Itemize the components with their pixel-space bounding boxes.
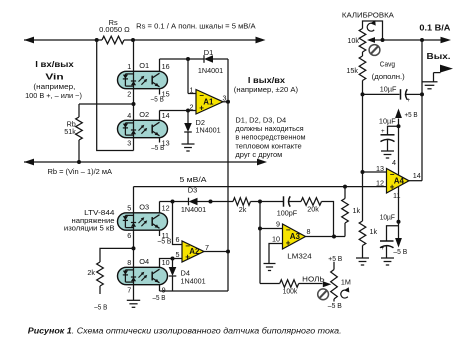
svg-text:A4: A4	[394, 176, 405, 185]
wire O4 pin10 to A2 + node	[160, 259, 173, 268]
ground below -5V cap	[381, 257, 394, 259]
ground at output	[422, 81, 438, 83]
node 1k junction on A4 input	[343, 185, 347, 189]
+5V arrow	[395, 109, 402, 119]
svg-text:Cavg: Cavg	[380, 60, 395, 69]
wire A2 output	[204, 251, 228, 253]
diode D4 1N4001	[172, 259, 174, 268]
svg-text:A3: A3	[290, 232, 301, 241]
svg-text:+5 В: +5 В	[405, 110, 418, 119]
svg-text:–5 В: –5 В	[393, 247, 407, 256]
wire to 100pF	[260, 201, 284, 203]
svg-text:2k: 2k	[239, 205, 247, 214]
op-amp A2	[182, 241, 204, 262]
svg-text:O1: O1	[139, 61, 149, 70]
wire bottom rail y=161.5	[24, 161, 258, 163]
wire bottom return y=291	[160, 290, 229, 292]
ground at A3 + input	[264, 263, 276, 265]
svg-text:100k: 100k	[283, 287, 298, 296]
svg-text:Рисунок 1. Схема оптически изо: Рисунок 1. Схема оптически изолированног…	[28, 327, 342, 336]
wire O2 pin3 stub	[133, 138, 135, 151]
svg-text:7: 7	[205, 243, 209, 252]
svg-text:A1: A1	[203, 98, 214, 107]
resistor Rs	[102, 36, 124, 44]
svg-text:1N4001: 1N4001	[196, 126, 221, 135]
svg-text:5: 5	[176, 250, 180, 259]
svg-text:D1: D1	[204, 48, 213, 57]
ground below +5V cap	[381, 150, 394, 152]
svg-text:6: 6	[176, 235, 180, 244]
svg-text:12: 12	[376, 179, 384, 188]
svg-text:(например,: (например,	[33, 82, 75, 91]
wire LED chain O1-O2	[133, 40, 135, 71]
svg-text:изоляции 5 кВ: изоляции 5 кВ	[64, 223, 115, 232]
arrow right end bottom rail	[257, 159, 267, 166]
wire A3 noninverting to ground	[269, 244, 283, 264]
svg-text:1k: 1k	[370, 227, 378, 236]
node junctions on feedback rail	[171, 200, 175, 204]
arrow right end of top rail	[256, 37, 266, 44]
svg-text:(например, ±20 А): (например, ±20 А)	[234, 85, 298, 94]
potentiometer 10k	[359, 29, 366, 53]
screw adjust symbol (calibration)	[369, 45, 380, 56]
svg-text:Rs = 0.1 / А полн. шкалы = 5 м: Rs = 0.1 / А полн. шкалы = 5 мВ/А	[136, 22, 256, 31]
capacitor 10uF (-5V)	[387, 226, 399, 241]
svg-text:20k: 20k	[307, 204, 319, 213]
ground below D2	[182, 143, 195, 145]
wire A4 noninverting long rail y=186.6	[134, 186, 387, 188]
svg-text:11: 11	[393, 191, 400, 200]
ground below 1k	[356, 257, 369, 259]
svg-text:4: 4	[392, 158, 396, 167]
svg-text:должны находиться: должны находиться	[235, 124, 303, 133]
svg-text:3: 3	[127, 138, 131, 147]
wire output rail x=422	[421, 40, 423, 181]
svg-text:(дополн.): (дополн.)	[372, 72, 405, 81]
svg-text:2k: 2k	[87, 268, 95, 277]
wire A1 output	[223, 101, 228, 103]
-5V arrow	[398, 222, 400, 238]
svg-text:8: 8	[307, 227, 311, 236]
diode D3 1N4001	[188, 198, 190, 206]
wire A3 inverting rail x=260	[259, 202, 261, 229]
svg-text:2: 2	[190, 102, 194, 111]
svg-text:6: 6	[127, 231, 131, 240]
svg-text:9: 9	[276, 219, 280, 228]
node wiper junction	[381, 38, 385, 42]
wire Rb top	[79, 103, 134, 105]
svg-text:–5 В: –5 В	[151, 143, 164, 152]
ground below O4	[127, 299, 140, 301]
arrow left end bottom rail	[24, 159, 34, 166]
op-amp A4	[387, 169, 410, 194]
resistor 15k	[362, 52, 364, 56]
label -5V below O2 pin13	[159, 138, 161, 143]
resistor 20k	[301, 198, 322, 206]
wire to 100k	[260, 283, 280, 285]
wire Vin return loop	[97, 40, 134, 151]
wire pot top to wiper tie	[363, 21, 383, 40]
resistor 100k	[280, 280, 299, 288]
svg-text:10µF: 10µF	[380, 212, 396, 221]
svg-text:1k: 1k	[353, 206, 361, 215]
wire O3 pin5 stub	[133, 187, 135, 213]
resistor 2k (feedback)	[233, 198, 251, 206]
svg-text:–5 В: –5 В	[328, 301, 342, 310]
resistor 1k (A3 out to A4 +)	[344, 187, 346, 199]
resistor 2k (bias)	[97, 262, 104, 286]
wire A1 inverting input	[187, 59, 189, 94]
optocoupler O2	[118, 120, 168, 137]
svg-text:D1, D2, D3, D4: D1, D2, D3, D4	[235, 115, 286, 124]
svg-text:0.0050 Ω: 0.0050 Ω	[99, 25, 130, 34]
wire A1 noninverting input from O2 pin14	[159, 111, 161, 121]
svg-text:13: 13	[376, 164, 384, 173]
svg-text:–5 В: –5 В	[153, 293, 166, 302]
svg-text:5: 5	[127, 204, 131, 213]
arrow left end of top rail	[24, 37, 34, 44]
svg-text:8: 8	[127, 258, 131, 267]
svg-text:+: +	[406, 97, 410, 104]
op-amp A1	[196, 90, 223, 115]
node A2 + junction	[171, 257, 175, 261]
svg-text:0.1 В/А: 0.1 В/А	[419, 23, 450, 33]
svg-text:тепловом контакте: тепловом контакте	[235, 142, 301, 151]
wire O4 pin9 stub	[159, 285, 161, 291]
svg-text:100 В +, – или ~): 100 В +, – или ~)	[25, 91, 82, 100]
svg-text:–5 В: –5 В	[94, 303, 107, 312]
svg-text:1N4001: 1N4001	[198, 66, 223, 75]
svg-text:5 мВ/А: 5 мВ/А	[180, 175, 207, 184]
svg-text:–5 В: –5 В	[151, 95, 164, 104]
optocoupler O4	[118, 267, 168, 284]
svg-text:14: 14	[162, 111, 170, 120]
optocoupler O1	[118, 71, 168, 88]
wire A3 output	[306, 236, 346, 238]
wire A1 output vertical down	[227, 59, 229, 102]
node Rb bottom junction	[77, 160, 81, 164]
wiper arrow of 10k pot	[374, 39, 383, 41]
screw adjust symbol (NOL)	[318, 289, 329, 300]
wire A4 inverting input	[363, 171, 387, 173]
svg-text:14: 14	[413, 171, 421, 180]
svg-text:Вых.: Вых.	[427, 51, 451, 61]
svg-text:D3: D3	[188, 185, 197, 194]
svg-text:1M: 1M	[341, 277, 351, 286]
wire A4 pin11 -5V	[398, 187, 400, 222]
svg-text:1: 1	[127, 62, 131, 71]
wire O4 pin7 to ground	[133, 285, 135, 301]
node A1 feedback junction	[186, 57, 190, 61]
svg-text:4: 4	[127, 111, 131, 120]
node D2 junction	[186, 109, 190, 113]
node Rb tap junction	[132, 102, 136, 106]
svg-text:10µF: 10µF	[379, 117, 396, 126]
wiper arrow of 1M pot	[323, 281, 332, 287]
svg-text:1N4001: 1N4001	[181, 205, 206, 214]
svg-text:друг с другом: друг с другом	[235, 150, 282, 159]
node junction top-left	[95, 38, 99, 42]
svg-text:Vin: Vin	[45, 71, 63, 81]
rotation arrow (NOL)	[341, 290, 348, 298]
diode D2 1N4001	[187, 111, 189, 124]
wire 15k rail down to A4	[362, 94, 364, 221]
capacitor Cavg 10uF	[400, 89, 402, 99]
svg-text:51k: 51k	[64, 127, 76, 136]
resistor 1k (to ground)	[359, 221, 366, 246]
svg-text:O2: O2	[139, 110, 149, 119]
label -5V below O1 pin15	[159, 89, 161, 95]
wire O1 pin16 to D1	[159, 59, 161, 71]
arrow output right	[441, 37, 452, 43]
svg-text:2: 2	[127, 89, 131, 98]
svg-text:LM324: LM324	[287, 251, 311, 260]
op-amp A3	[283, 224, 306, 249]
svg-text:I вх/вых: I вх/вых	[35, 59, 74, 69]
optocoupler O3	[118, 213, 168, 230]
svg-text:КАЛИБРОВКА: КАЛИБРОВКА	[342, 10, 394, 19]
svg-text:I вых/вх: I вых/вх	[248, 75, 285, 85]
svg-text:+: +	[381, 245, 385, 252]
svg-text:15k: 15k	[346, 66, 358, 75]
svg-text:12: 12	[162, 204, 170, 213]
wire A2 inverting input from feedback rail	[173, 202, 183, 245]
wire O3 pin12 stub	[159, 202, 161, 213]
node feedback/output junction	[332, 235, 336, 239]
wire Cavg	[361, 92, 365, 96]
wire A4 output	[409, 180, 422, 182]
wire A2 noninverting input	[173, 258, 183, 260]
wire O3 pin6 down to O4 pin8	[133, 230, 135, 267]
svg-text:–5 В: –5 В	[158, 237, 172, 246]
node A1 output junction	[226, 100, 230, 104]
wire A4 pin4 +5V	[398, 119, 400, 175]
svg-text:16: 16	[162, 62, 170, 71]
svg-text:+5 В: +5 В	[328, 254, 342, 263]
svg-text:10: 10	[162, 258, 170, 267]
capacitor 100pF	[283, 196, 285, 206]
node junction O3-O4	[132, 246, 136, 250]
diode D1 1N4001	[203, 55, 205, 63]
potentiometer 1M	[333, 262, 335, 270]
wire to 2k bias resistor	[100, 248, 134, 262]
svg-text:10: 10	[272, 235, 280, 244]
svg-text:O3: O3	[139, 203, 149, 212]
output flag terminal	[434, 72, 441, 74]
svg-text:O4: O4	[139, 257, 149, 266]
svg-text:+: +	[381, 128, 385, 135]
wire feedback rail y=201.5	[160, 201, 189, 203]
wire top rail y=40	[24, 39, 102, 41]
svg-text:A2: A2	[189, 247, 200, 256]
svg-text:1N4001: 1N4001	[181, 276, 206, 285]
wire 20k to A3 output node	[322, 202, 334, 237]
svg-text:в непосредственном: в непосредственном	[235, 133, 305, 142]
wire O3 pin11 to -5V	[159, 230, 161, 236]
svg-text:10k: 10k	[347, 36, 359, 45]
svg-text:1: 1	[190, 85, 194, 94]
rotation arrow (calibration)	[367, 23, 374, 31]
wire output 0.1V/A	[383, 39, 442, 41]
node junction top LED chain	[131, 38, 135, 42]
svg-text:НОЛЬ: НОЛЬ	[302, 274, 325, 283]
capacitor 10uF (+5V)	[388, 126, 399, 135]
resistor Rb 51k	[76, 117, 83, 140]
svg-text:10µF: 10µF	[380, 84, 397, 93]
svg-text:100pF: 100pF	[277, 209, 298, 218]
svg-text:7: 7	[127, 285, 131, 294]
svg-text:Rb = (Vin – 1)/2 мА: Rb = (Vin – 1)/2 мА	[48, 167, 113, 176]
